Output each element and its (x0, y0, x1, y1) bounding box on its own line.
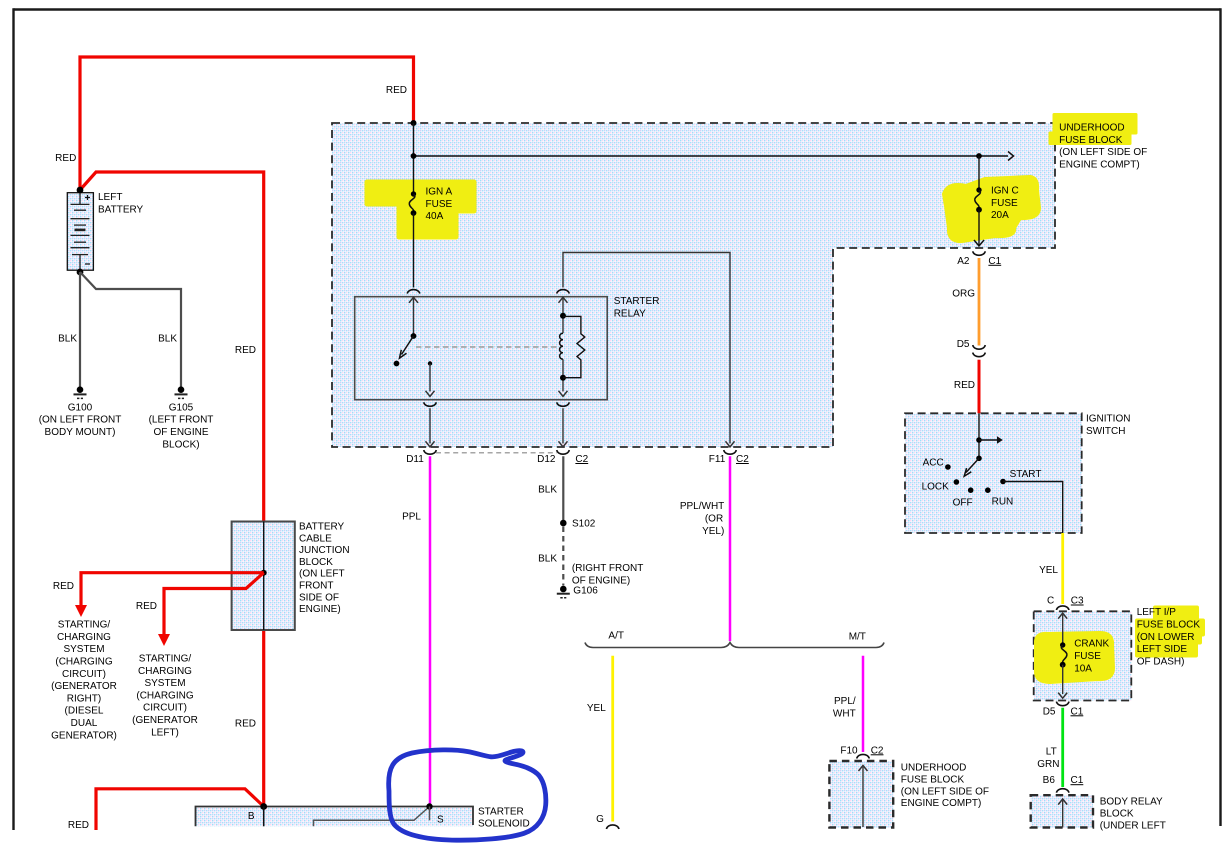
svg-text:WHT: WHT (833, 709, 856, 720)
highlighter: crank fuse (1036, 633, 1113, 682)
node battery positive (77, 187, 84, 194)
highlighter: IGN C fuse (944, 177, 1039, 241)
svg-text:A/T: A/T (608, 631, 624, 642)
relay switch arm (394, 297, 418, 366)
wire RED battery+ up and over to underhood fuse block (80, 57, 414, 190)
svg-text:RED: RED (55, 153, 76, 164)
svg-text:BODY RELAY: BODY RELAY (1100, 797, 1163, 808)
svg-text:ENGINE COMPT): ENGINE COMPT) (1059, 159, 1140, 170)
svg-text:RED: RED (68, 820, 89, 831)
starter relay box (355, 297, 608, 400)
svg-text:BODY MOUNT): BODY MOUNT) (45, 427, 116, 438)
svg-text:SOLENOID: SOLENOID (478, 819, 530, 830)
solenoid internal contact (314, 807, 430, 827)
svg-text:IGN A: IGN A (426, 187, 453, 198)
svg-text:(OR: (OR (705, 514, 723, 525)
wire bus horizontal with arrow (414, 155, 1009, 157)
wire ORG (978, 258, 981, 346)
wire relay coil feed up and over to F11 (563, 253, 730, 444)
svg-text:ACC: ACC (923, 457, 944, 468)
svg-text:SIDE OF: SIDE OF (299, 592, 339, 603)
svg-text:(RIGHT FRONT: (RIGHT FRONT (572, 563, 643, 574)
svg-text:C1: C1 (988, 256, 1001, 267)
wire RED battery+ to long vertical feeder (80, 172, 264, 522)
wire PPL/WHT M/T branch to F10 (862, 656, 865, 752)
underhood fuse block region box (bottom) (829, 761, 893, 828)
wire RED to ignition switch (978, 360, 981, 414)
svg-text:RED: RED (235, 345, 256, 356)
relay actuating dashed link (416, 346, 557, 348)
svg-text:CHARGING: CHARGING (138, 666, 192, 677)
svg-text:OF ENGINE): OF ENGINE) (572, 575, 630, 586)
svg-text:RUN: RUN (992, 497, 1014, 508)
underhood fuse block region (top, L-shape) (332, 123, 1055, 447)
svg-text:START: START (1010, 469, 1042, 480)
battery minus sign (85, 263, 90, 265)
connector cap at relay pin 1 (407, 290, 420, 294)
pin F11 exit (709, 441, 749, 465)
ground G100 (39, 386, 122, 438)
node solenoid S terminal (426, 803, 432, 809)
label starting/charging system (generator left) (132, 654, 198, 739)
svg-text:FUSE: FUSE (426, 199, 453, 210)
svg-text:LEFT): LEFT) (151, 727, 179, 738)
svg-text:STARTER: STARTER (478, 807, 524, 818)
svg-text:S102: S102 (572, 519, 596, 530)
svg-text:(ON LOWER: (ON LOWER (1137, 632, 1195, 643)
svg-text:OF DASH): OF DASH) (1137, 656, 1185, 667)
svg-text:C1: C1 (1071, 775, 1084, 786)
svg-text:20A: 20A (991, 210, 1009, 221)
svg-text:CIRCUIT): CIRCUIT) (143, 703, 187, 714)
svg-text:IGNITION: IGNITION (1086, 414, 1130, 425)
svg-text:PPL/: PPL/ (834, 696, 856, 707)
wire through junction block (263, 522, 265, 631)
svg-text:D5: D5 (1043, 706, 1056, 717)
highlighter: left I/P fuse block label (1137, 608, 1203, 656)
svg-text:LEFT SIDE: LEFT SIDE (1137, 644, 1188, 655)
wire IGN C drop (978, 156, 980, 190)
node red feed at region edge (411, 120, 417, 126)
splice S102 (560, 520, 567, 527)
svg-text:FRONT: FRONT (299, 581, 333, 592)
fuse IGN A 40A (409, 187, 452, 223)
svg-text:BATTERY: BATTERY (98, 204, 144, 215)
left I/P fuse block region box (1034, 611, 1132, 700)
in-line connector D5 (973, 345, 986, 349)
svg-text:(ON LEFT: (ON LEFT (299, 569, 345, 580)
wire YEL ignition to crank fuse (1061, 533, 1064, 604)
wire RED from off-page to solenoid B (96, 789, 264, 830)
ground G106 (557, 586, 598, 598)
connector A2 C1 (973, 251, 986, 255)
relay coil (559, 297, 568, 396)
svg-text:C1: C1 (1071, 706, 1084, 717)
brace A/T M/T split (585, 643, 884, 648)
wire RED feeder below junction block to solenoid B (262, 630, 265, 807)
label underhood fuse block (bottom) (901, 763, 989, 810)
svg-text:RELAY: RELAY (614, 308, 646, 319)
ignition switch region box (905, 413, 1082, 533)
underhood fuse block (bottom) pin arrow (859, 765, 868, 771)
svg-text:FUSE: FUSE (1074, 651, 1101, 662)
svg-text:BLOCK: BLOCK (1100, 808, 1134, 819)
connector cap at relay pin 2 (557, 290, 570, 294)
svg-text:C3: C3 (1071, 596, 1084, 607)
svg-text:B: B (248, 811, 255, 822)
svg-text:D11: D11 (406, 454, 424, 465)
svg-text:RED: RED (235, 719, 256, 730)
label body relay block (1100, 797, 1166, 832)
battery cell plates (71, 193, 90, 270)
svg-text:LT: LT (1046, 747, 1057, 758)
wire RED to generator left (164, 573, 264, 634)
svg-text:RED: RED (53, 581, 74, 592)
relay pin D11 exit (406, 402, 436, 465)
svg-text:C2: C2 (575, 454, 588, 465)
svg-text:FUSE BLOCK: FUSE BLOCK (1137, 620, 1201, 631)
svg-text:IGN C: IGN C (991, 186, 1019, 197)
svg-text:G105: G105 (169, 402, 194, 413)
wire BLK dashed S102 to G106 (562, 527, 564, 586)
connector D5 C1 (1056, 702, 1069, 706)
svg-text:YEL: YEL (1039, 565, 1058, 576)
svg-text:10A: 10A (1074, 663, 1092, 674)
svg-text:PPL: PPL (402, 511, 421, 522)
svg-text:C: C (1047, 596, 1054, 607)
svg-text:(ON LEFT SIDE OF: (ON LEFT SIDE OF (1059, 147, 1147, 158)
svg-text:C2: C2 (871, 745, 884, 756)
svg-text:G100: G100 (68, 402, 93, 413)
wire BLK battery- to G100 (79, 272, 81, 387)
battery cable junction block box (232, 522, 295, 631)
wire RED to generator right (81, 573, 264, 605)
highlighter: IGN A fuse (367, 182, 474, 237)
wire START contact to box exit (1003, 482, 1063, 534)
svg-text:FUSE BLOCK: FUSE BLOCK (901, 774, 965, 785)
svg-text:BLK: BLK (538, 554, 557, 565)
wire bus inside underhood fuse block (413, 123, 415, 194)
svg-text:RED: RED (386, 85, 407, 96)
node bus tap IGN C (976, 153, 982, 159)
svg-text:(UNDER LEFT: (UNDER LEFT (1100, 820, 1166, 831)
node bus tap IGN A (411, 153, 417, 159)
relay pin D12 exit (537, 402, 588, 465)
svg-text:RED: RED (954, 380, 975, 391)
svg-text:JUNCTION: JUNCTION (299, 545, 350, 556)
svg-text:PPL/WHT: PPL/WHT (680, 501, 724, 512)
wire PPL/WHT F11 down to brace (729, 456, 732, 641)
svg-text:OF ENGINE: OF ENGINE (153, 427, 208, 438)
node junction block splice (261, 570, 267, 576)
svg-text:RIGHT): RIGHT) (67, 693, 101, 704)
wire BLK battery- to G105 (80, 272, 181, 387)
crank fuse 10A (1058, 613, 1109, 698)
svg-text:F10: F10 (840, 745, 858, 756)
wire IGN A fuse to starter relay (413, 213, 415, 288)
wire BLK D12 to S102 (562, 456, 564, 523)
svg-text:BLOCK): BLOCK) (162, 439, 199, 450)
svg-text:D12: D12 (537, 454, 556, 465)
label starting/charging system (generator right) (51, 620, 117, 742)
svg-text:BATTERY: BATTERY (299, 522, 345, 533)
svg-text:BLK: BLK (538, 484, 557, 495)
svg-text:(DIESEL: (DIESEL (65, 706, 104, 717)
svg-text:FUSE: FUSE (991, 198, 1018, 209)
svg-text:DUAL: DUAL (71, 718, 98, 729)
body relay block pin arrow (1058, 799, 1067, 805)
svg-text:ENGINE): ENGINE) (299, 604, 341, 615)
svg-text:CHARGING: CHARGING (57, 632, 111, 643)
svg-text:RED: RED (136, 601, 157, 612)
svg-text:(ON LEFT SIDE OF: (ON LEFT SIDE OF (901, 786, 989, 797)
svg-text:S: S (437, 815, 444, 826)
svg-text:CRANK: CRANK (1074, 639, 1109, 650)
starter solenoid box (196, 807, 474, 827)
svg-text:(LEFT FRONT: (LEFT FRONT (149, 415, 214, 426)
svg-text:G106: G106 (573, 586, 598, 597)
svg-text:SYSTEM: SYSTEM (63, 644, 104, 655)
svg-text:(CHARGING: (CHARGING (55, 657, 112, 668)
svg-text:D5: D5 (957, 339, 970, 350)
relay output contact to pin D11 (426, 361, 435, 396)
svg-text:F11: F11 (709, 454, 726, 465)
connector C2 dashed link D11-D12 (436, 452, 557, 454)
relay coil suppression resistor (563, 316, 585, 377)
fuse IGN C 20A (975, 186, 1019, 222)
ignition switch internals (922, 413, 1042, 508)
svg-text:ENGINE COMPT): ENGINE COMPT) (901, 798, 982, 809)
svg-text:BLK: BLK (158, 334, 177, 345)
svg-text:YEL: YEL (587, 703, 606, 714)
highlighter: underhood fuse block label (1050, 115, 1136, 144)
svg-text:G: G (596, 814, 604, 825)
battery plus sign (85, 195, 90, 200)
svg-text:SYSTEM: SYSTEM (144, 678, 185, 689)
svg-text:UNDERHOOD: UNDERHOOD (901, 763, 967, 774)
wire YEL A/T branch (611, 656, 614, 822)
svg-text:LEFT I/P: LEFT I/P (1137, 607, 1177, 618)
svg-text:B6: B6 (1043, 775, 1056, 786)
body relay block region box (1031, 795, 1093, 827)
svg-text:M/T: M/T (849, 632, 866, 643)
svg-text:LEFT: LEFT (98, 192, 122, 203)
svg-text:STARTING/: STARTING/ (58, 620, 111, 631)
wire IGN C fuse to region edge with arrow (978, 210, 980, 245)
wire LT GRN (1061, 708, 1064, 787)
svg-text:(CHARGING: (CHARGING (136, 690, 193, 701)
wire PPL D11 to solenoid S (429, 456, 432, 806)
svg-text:OFF: OFF (953, 497, 973, 508)
svg-text:YEL): YEL) (702, 526, 724, 537)
svg-text:UNDERHOOD: UNDERHOOD (1059, 123, 1125, 134)
battery BT1 box (67, 193, 93, 271)
svg-text:CABLE: CABLE (299, 533, 332, 544)
node battery negative (77, 269, 84, 276)
svg-text:CIRCUIT): CIRCUIT) (62, 669, 106, 680)
label underhood fuse block (top right) (1059, 123, 1147, 171)
blue pen scribble around S terminal (389, 750, 546, 840)
svg-text:(ON LEFT FRONT: (ON LEFT FRONT (39, 415, 122, 426)
svg-text:(GENERATOR: (GENERATOR (51, 681, 117, 692)
svg-text:GRN: GRN (1037, 759, 1059, 770)
svg-text:FUSE BLOCK: FUSE BLOCK (1059, 135, 1123, 146)
svg-text:ORG: ORG (952, 288, 975, 299)
svg-text:BLK: BLK (58, 334, 77, 345)
svg-text:BLOCK: BLOCK (299, 557, 333, 568)
ground G105 (149, 386, 214, 450)
svg-text:GENERATOR): GENERATOR) (51, 730, 117, 741)
label left I/P fuse block (1137, 607, 1201, 667)
svg-text:C2: C2 (736, 454, 749, 465)
svg-text:(GENERATOR: (GENERATOR (132, 715, 198, 726)
svg-text:40A: 40A (426, 211, 444, 222)
label battery cable junction block (299, 522, 350, 616)
svg-text:STARTER: STARTER (614, 296, 660, 307)
svg-text:A2: A2 (957, 256, 970, 267)
svg-text:LOCK: LOCK (922, 481, 950, 492)
svg-text:STARTING/: STARTING/ (139, 654, 192, 665)
node solenoid B terminal (260, 803, 267, 810)
svg-text:SWITCH: SWITCH (1086, 426, 1125, 437)
